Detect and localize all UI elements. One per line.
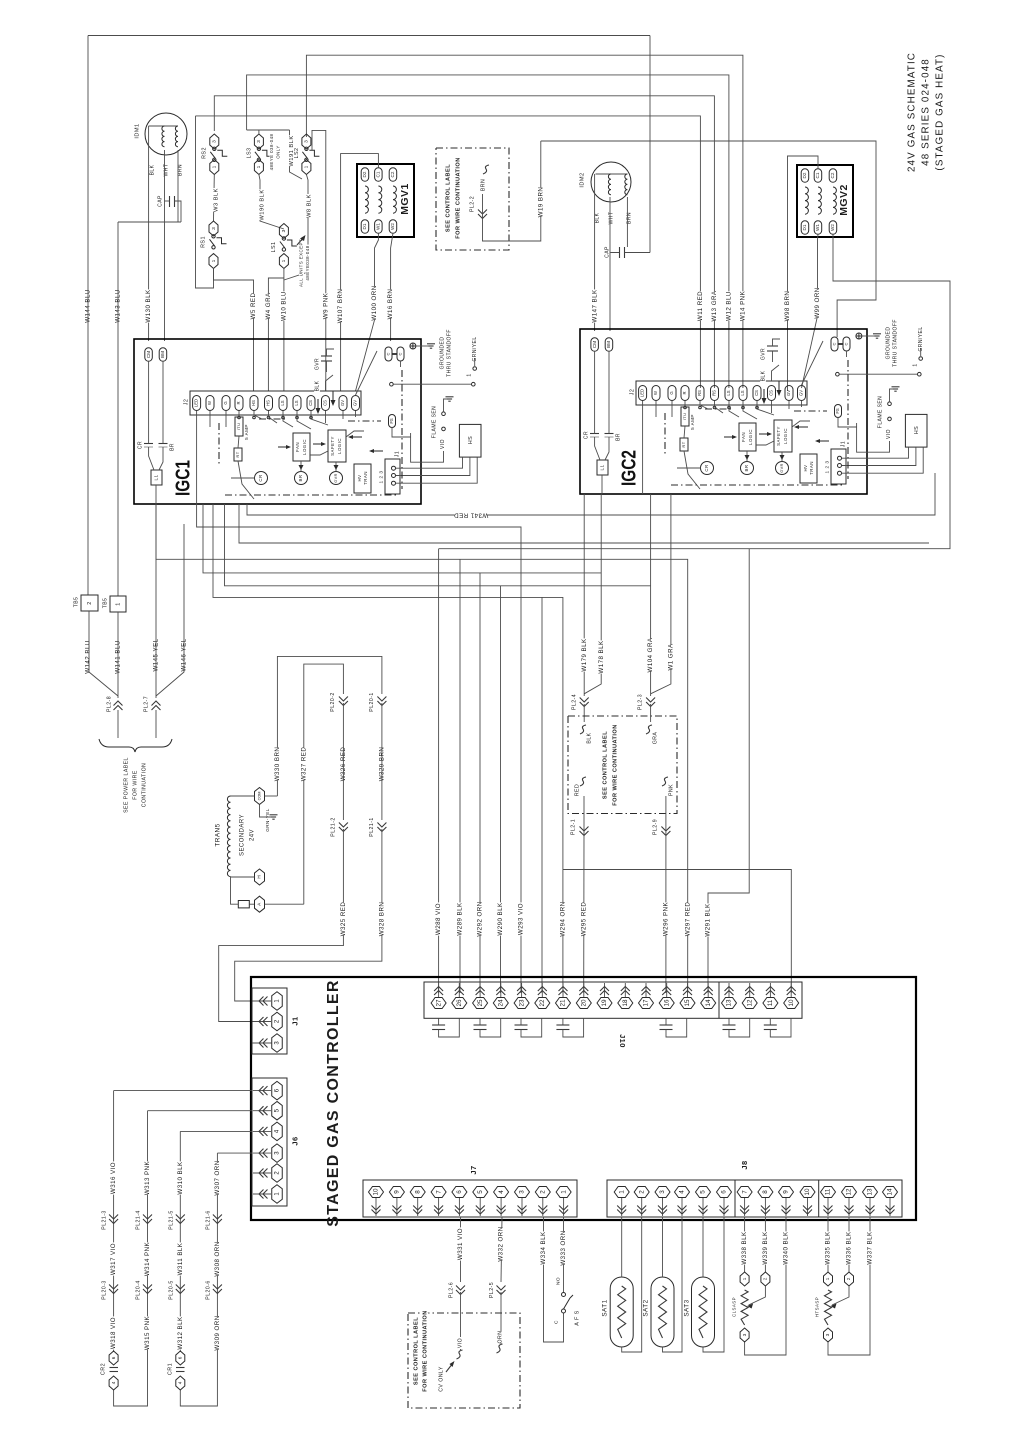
svg-text:1: 1 [825,1277,830,1280]
resistor RT (IGC1) [234,436,254,499]
svg-text:G: G [669,391,674,394]
J8 pin 11 [821,1187,836,1217]
svg-text:A F S: A F S [574,1310,580,1325]
J2 pin CS (IGC1) [307,396,315,411]
svg-text:SAT3: SAT3 [684,1299,691,1316]
svg-text:2: 2 [846,1277,851,1280]
internal dash-dot bus (IGC2) [665,360,848,485]
svg-text:TRAN: TRAN [363,471,368,485]
svg-text:15: 15 [684,999,691,1007]
wire W294 branch to J10-10 [563,870,791,994]
J10 pin 20 [576,983,591,1009]
J7 pin 7 [431,1187,446,1217]
svg-text:PL2-5: PL2-5 [489,1282,495,1298]
relay BR circle (IGC2) [741,451,754,475]
pin FS wire (IGC1) [392,427,411,437]
svg-text:W325 RED: W325 RED [340,902,347,937]
svg-text:BRN: BRN [480,179,486,191]
svg-text:GVR: GVR [314,358,320,370]
J6 pin 5 chevrons [259,1106,268,1115]
svg-text:J1: J1 [394,451,400,457]
J6 pin 6 [253,1081,282,1100]
svg-text:20: 20 [580,999,587,1007]
J7 pin 5 [473,1187,488,1217]
transformer HV TRAN (IGC1) [354,464,371,493]
plug PL2-7 [143,695,161,738]
wire W run / W179 W178 BLK [203,504,601,573]
J2 pin GV (IGC2) [785,386,793,401]
svg-text:W333 ORN: W333 ORN [560,1230,567,1265]
J2 pin LS (IGC2) [725,386,733,401]
svg-text:SECONDARY: SECONDARY [240,814,246,856]
J10 pin 24 chevrons [496,987,505,996]
svg-text:RT: RT [681,441,686,447]
wire J1-2 to HS (IGC1) [396,457,470,475]
J7 pin 1 chevrons [559,1206,568,1215]
J8 pin 13 [863,1187,878,1217]
svg-text:W1: W1 [376,223,381,230]
svg-text:GVR: GVR [780,463,784,473]
see control label box (middle) [568,716,677,814]
svg-text:ITU: ITU [682,413,687,421]
svg-text:C2: C2 [390,171,395,177]
svg-text:24: 24 [497,999,504,1007]
label VIO (IGC1) [411,433,446,462]
svg-text:4: 4 [498,1190,505,1194]
J10 pin 23 chevrons [517,987,526,996]
sensor HTSASP pins [824,1272,854,1342]
J7 pin 9 chevrons [392,1206,401,1215]
J2 pin LS (IGC1) [279,396,287,411]
svg-text:W332 ORN: W332 ORN [498,1226,505,1261]
svg-text:W4 GRA: W4 GRA [265,292,272,320]
svg-text:HTSASP: HTSASP [815,1297,820,1317]
svg-text:STAGED GAS CONTROLLER: STAGED GAS CONTROLLER [325,979,342,1226]
svg-text:PL2-8: PL2-8 [106,696,112,712]
svg-text:FOR WIRE CONTINUATION: FOR WIRE CONTINUATION [455,157,461,238]
wire SAT2 bottom loop [663,1217,683,1352]
J8 pin 14 [883,1187,898,1217]
plug PL20-3 [101,1279,118,1301]
diag GV wire (IGC2) [802,341,824,385]
J7 pin 6 [452,1187,467,1217]
svg-text:H: H [257,875,262,878]
svg-text:1: 1 [466,373,472,376]
J2 pin R (IGC2) [681,386,689,401]
termination capacitor under J10 at x=770 [764,1018,791,1037]
svg-text:W1: W1 [815,224,820,231]
J10 pin 17 chevrons [642,987,651,996]
MGV1 coil 3 [393,186,396,213]
svg-text:W: W [653,391,658,395]
J10 pin 11 chevrons [766,987,775,996]
wire J1-1 to HS (IGC1) [396,457,463,468]
J10 pin 19 chevrons [600,987,609,996]
svg-text:GV: GV [786,390,791,396]
J7 pin 5 chevrons [476,1206,485,1215]
svg-text:1: 1 [742,1277,747,1280]
svg-text:W327 RED: W327 RED [300,747,307,782]
wire W179 BLK [581,494,588,696]
svg-text:22: 22 [539,999,546,1007]
svg-text:W310 BLK: W310 BLK [177,1161,184,1195]
svg-text:1: 1 [618,1190,625,1194]
wire W329 to PL21-1 [381,703,383,820]
svg-text:3: 3 [212,140,218,143]
plug PL2-8 [106,695,123,738]
svg-text:5 AMP: 5 AMP [690,414,695,430]
see control label box (top) [436,148,509,250]
valve MGV1 box [357,164,414,237]
wire IDM2 BRN [626,197,628,247]
svg-text:CONTINUATION: CONTINUATION [141,763,147,808]
contact CR (IGC1) [137,361,153,449]
svg-text:CS: CS [754,390,759,396]
svg-text:48EYE038-048: 48EYE038-048 [305,245,310,280]
svg-text:IGC1: IGC1 [172,460,194,496]
svg-text:26: 26 [456,999,463,1007]
wire W336 BLK [845,1217,852,1272]
svg-text:2: 2 [638,1190,645,1194]
svg-text:PL20-6: PL20-6 [205,1280,211,1299]
svg-text:LED: LED [194,399,199,407]
svg-text:J1: J1 [290,1016,299,1025]
wire LS2-3 to IGC2 J2 (line B) [306,55,743,388]
J2 pin HS (IGC1) [250,396,258,411]
relay CR2 [100,1351,118,1390]
svg-text:1: 1 [211,259,217,262]
J6 pin 2 [253,1164,282,1183]
label VIO (IGC2) [857,423,892,452]
J1 pin 2 circle (IGC2) [838,464,842,468]
label BLK (IGC1) [314,375,333,392]
capacitor GVR (IGC1) [314,349,334,372]
svg-text:W308 ORN: W308 ORN [214,1241,221,1276]
J10 pin 13 chevrons [725,987,734,996]
svg-text:W290 BLK: W290 BLK [497,902,504,936]
svg-text:W179 BLK: W179 BLK [581,638,588,672]
text CV ONLY [438,1361,455,1392]
J2 pin HS (IGC1) [265,396,273,411]
svg-text:W13 GRA: W13 GRA [711,290,718,321]
svg-text:W315 PNK: W315 PNK [144,1315,151,1350]
svg-text:PL20-3: PL20-3 [101,1280,107,1299]
svg-text:W334 BLK: W334 BLK [540,1231,547,1265]
svg-text:D1: D1 [802,224,807,230]
plug PL2-9 chevrons [652,818,670,837]
svg-text:D2: D2 [802,172,807,178]
wire W296 PNK to J10-16 [662,796,669,993]
svg-text:PL21-4: PL21-4 [135,1210,141,1229]
J6 pin 5 [253,1101,282,1120]
wire PL2-3 into box [650,704,652,722]
svg-text:RT: RT [235,451,240,457]
J7 pin 3 chevrons [518,1206,527,1215]
J7 pin 3 [515,1187,530,1217]
svg-text:25: 25 [477,999,484,1007]
J10 pin 14 chevrons [704,987,713,996]
svg-text:W11 RED: W11 RED [697,291,704,321]
J1 pin 1 circle (IGC1) [392,466,396,470]
svg-text:SAFETY: SAFETY [776,426,781,446]
svg-text:J10: J10 [618,1034,627,1048]
wire break ORN [497,1331,504,1353]
svg-text:RS: RS [697,390,702,396]
svg-text:LS1: LS1 [271,242,277,253]
switch LS3 [246,134,272,175]
J10 pin 23 [514,983,529,1009]
svg-text:R: R [236,401,241,404]
svg-text:ITU: ITU [236,423,241,431]
svg-text:HS: HS [266,400,271,406]
svg-text:PL2-6: PL2-6 [448,1282,454,1298]
wire W326 to PL21-2 [342,703,344,820]
terminal TB5-2 [73,595,98,611]
J8 pin 3 chevrons [658,1206,667,1215]
J8 pin 2 [634,1187,649,1217]
svg-text:W338 BLK: W338 BLK [741,1231,748,1265]
svg-text:GVR: GVR [760,348,766,360]
svg-text:27: 27 [435,999,442,1007]
wire W10 BLU [280,268,287,391]
wire W99 ORN [802,234,822,388]
svg-text:PL2-7: PL2-7 [143,696,149,712]
label W19 BRN [537,187,544,218]
svg-text:W314 PNK: W314 PNK [144,1241,151,1276]
svg-text:FOR WIRE: FOR WIRE [132,770,138,800]
wire W325 RED [219,829,347,1022]
switch AFS [553,1277,580,1328]
svg-text:FAN: FAN [295,442,300,452]
svg-text:5 AMP: 5 AMP [244,424,249,440]
wire LS2 bracket to W9 PNK [312,130,326,391]
svg-text:NO: NO [555,1277,561,1285]
J10 pin 25 [473,983,488,1009]
connector J1 strip (IGC2) [824,440,846,484]
wire LED run to J10-23 / W293 VIO [197,504,525,993]
svg-text:W317 VIO: W317 VIO [110,1243,117,1275]
wire W144 BLU top run (line A) [88,35,650,37]
J8 pin 13 chevrons [866,1206,875,1215]
svg-text:CR1: CR1 [167,1363,173,1375]
svg-text:RS1: RS1 [200,236,206,248]
termination capacitor under J10 at x=562 [556,1018,583,1037]
node circles pair (IGC2) [836,372,921,376]
TRAN5 fuse [231,877,255,908]
see control label box (bottom) [408,1310,520,1408]
wire loop W327/W326 [304,664,344,904]
J10 pin 15 [680,983,695,1009]
J8 pin 7 [737,1187,752,1217]
svg-text:48EYE 038-048: 48EYE 038-048 [269,133,274,170]
svg-text:W339 BLK: W339 BLK [762,1231,769,1265]
J8 pin 3 [655,1187,670,1217]
svg-text:THRU STANDOFF: THRU STANDOFF [892,319,898,367]
fan logic box (IGC2) [739,423,756,451]
svg-text:C1: C1 [815,172,820,178]
svg-text:17: 17 [643,999,650,1007]
svg-text:BM: BM [160,351,165,358]
svg-text:16: 16 [663,999,670,1007]
J6 pin 2 chevrons [259,1169,268,1178]
svg-text:BLK: BLK [594,212,600,223]
svg-text:J7: J7 [469,1165,478,1174]
svg-text:SAT1: SAT1 [602,1299,609,1316]
svg-text:W316 VIO: W316 VIO [110,1162,117,1194]
svg-text:W297 RED: W297 RED [684,902,691,937]
relay CR circle (IGC1) [231,472,268,485]
connector J2 (IGC1) [183,391,361,415]
termination capacitor under J10 at x=521 [515,1018,542,1037]
J7 pin 7 chevrons [434,1206,443,1215]
svg-text:2: 2 [763,1277,768,1280]
TRAN5 pin A [255,896,304,912]
svg-text:PL20-5: PL20-5 [168,1280,174,1299]
svg-text:4: 4 [679,1190,686,1194]
capacitor GVR (IGC2) [760,339,780,362]
text GROUNDED THRU STANDOFF (IGC1) [439,329,452,377]
wire J1-3 stub [252,1042,272,1044]
J6 pin 4 [253,1122,282,1141]
svg-text:1: 1 [281,259,287,262]
plug PL20-6 [205,1279,222,1301]
J2 pin LED (IGC1) [193,396,201,411]
plug PL2-6 [448,1281,465,1350]
svg-text:10: 10 [788,999,795,1007]
svg-text:L1: L1 [154,474,159,480]
wire run to W294 / J10-21 [213,504,567,993]
svg-text:W328 BRN: W328 BRN [379,902,386,937]
J10 pin 20 chevrons [579,987,588,996]
J8 pin 6 chevrons [720,1206,729,1215]
J1 pin 1 circle (IGC2) [838,456,842,460]
J2 pin RS (IGC2) [696,386,704,401]
svg-text:W293 VIO: W293 VIO [518,903,525,935]
svg-text:1: 1 [304,165,310,168]
svg-text:W288 VIO: W288 VIO [435,903,442,935]
svg-text:12: 12 [846,1188,853,1196]
MGV1 coil 2 [378,186,381,213]
wire W290 BLK to J10-24 [497,586,504,993]
J7 pin 10 chevrons [372,1206,381,1215]
J10 pin 15 chevrons [683,987,692,996]
J2 pin node circles (IGC2) [684,406,759,409]
title block text [906,52,945,172]
label IGC2 (IGC2) [618,450,640,486]
wire W146 slant [156,524,184,696]
J8 pin 6 [717,1187,732,1217]
wire SAT1 bottom loop [622,1217,642,1352]
J1 pin 2 [253,1012,282,1031]
svg-text:FOR WIRE CONTINUATION: FOR WIRE CONTINUATION [422,1310,428,1391]
J7 pin 8 chevrons [413,1206,422,1215]
svg-text:CR: CR [137,441,143,449]
valve MGV2 box [797,165,853,237]
IDM1 lead labels [149,164,183,177]
safety logic box (IGC2) [774,420,792,452]
relay GVR circle (IGC2) [776,452,789,475]
svg-text:3: 3 [519,1190,526,1194]
svg-text:LS3: LS3 [246,148,252,159]
svg-text:PL2-9: PL2-9 [652,819,658,835]
igniter HS box (IGC1) [459,424,481,457]
J6 pin 6 chevrons [259,1086,268,1095]
label 1 GRN/YEL (IGC2) [912,326,924,367]
svg-text:LS: LS [740,390,745,395]
MGV2 pin C2 [829,169,837,183]
MGV2 coil 1 [805,187,808,214]
wire W292 ORN to J10-25 [476,573,483,993]
label PL2-2 [469,195,475,214]
svg-text:COM: COM [258,792,262,801]
sensor CLSASP pins [740,1272,770,1342]
J10 pin 19 [597,983,612,1009]
J2 pin GV (IGC2) [798,386,806,401]
IDM2 lead labels [594,212,632,225]
svg-text:W19 BRN: W19 BRN [537,187,544,218]
J2 pin CS (IGC2) [768,386,776,401]
sensor SAT3 [683,1277,714,1347]
wire PL2-2 to W19 BRN [483,141,541,241]
svg-text:W312 BLK: W312 BLK [177,1316,184,1350]
svg-text:GV: GV [340,400,345,406]
svg-text:HS: HS [914,426,920,434]
svg-text:W309 ORN: W309 ORN [214,1315,221,1350]
svg-text:W295 RED: W295 RED [580,902,587,937]
J10 pin 25 chevrons [476,987,485,996]
svg-text:PL21-6: PL21-6 [205,1210,211,1229]
J7 pin 4 chevrons [497,1206,506,1215]
J10 pin 21 [556,983,571,1009]
svg-text:THRU STANDOFF: THRU STANDOFF [446,329,452,377]
svg-text:1: 1 [212,165,218,168]
svg-text:3: 3 [742,1333,747,1336]
J2 pin W (IGC1) [206,396,214,411]
svg-text:BR: BR [298,475,303,482]
wire CR1 D top [217,1152,252,1154]
svg-text:14: 14 [705,999,712,1007]
J6 pin 1 [253,1185,282,1204]
J8 pin 5 [696,1187,711,1217]
svg-text:W98 BRN: W98 BRN [784,291,791,322]
J8 pin 7 chevrons [740,1206,749,1215]
svg-text:CR: CR [258,474,263,481]
svg-text:W311 BLK: W311 BLK [177,1242,184,1275]
J7 pin 2 chevrons [538,1206,547,1215]
svg-text:48 SERIES 024-048: 48 SERIES 024-048 [921,58,932,166]
svg-text:C: C [386,352,391,355]
svg-text:HV: HV [357,475,362,482]
gas valve oval pair (IGC2) [831,337,850,357]
diag GV wire (IGC1) [356,351,378,395]
svg-text:18: 18 [622,999,629,1007]
svg-text:C: C [844,342,849,345]
svg-text:1 2 3: 1 2 3 [824,461,830,474]
svg-text:W318 VIO: W318 VIO [110,1317,117,1349]
plug PL21-4 [135,1209,152,1231]
grounding screw (IGC2) [856,333,881,339]
wire break BLK (PL2-4) [580,725,592,744]
J8 pin 4 [675,1187,690,1217]
MGV1 coil 1 [365,186,368,213]
relay GVR circle (IGC1) [330,462,343,485]
J7 pin 10 [369,1187,384,1217]
sensor HTSASP resistor [815,1290,832,1325]
labels CR2 B [144,1160,151,1350]
svg-text:VIO: VIO [440,439,446,449]
flame sensor electrodes (IGC1) [442,397,454,431]
J8 pin 8 [758,1187,773,1217]
